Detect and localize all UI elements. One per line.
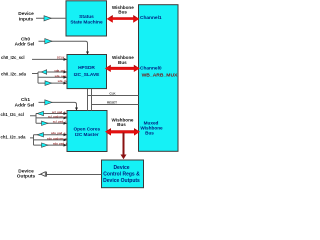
svg-text:ch0_I2c_scl: ch0_I2c_scl: [1, 55, 25, 60]
wire ch1 addr sel: [39, 102, 77, 110]
svg-text:Device: Device: [18, 11, 34, 17]
svg-text:RESET: RESET: [107, 101, 117, 105]
svg-text:sda_padoen_o: sda_padoen_o: [47, 136, 67, 140]
svg-text:sda_in: sda_in: [58, 79, 67, 83]
arrowhead ch0 sda oen: [64, 76, 68, 79]
arrowhead ch0 sda out: [64, 71, 68, 74]
buffer ch0 sda in: [45, 81, 52, 86]
buffer ch0 addr sel: [45, 39, 52, 44]
arrowhead wishbone vertical: [121, 155, 127, 160]
arrowhead ch0 scl: [64, 58, 68, 61]
arrowhead ch1 scl oen: [64, 116, 68, 119]
svg-text:Status: Status: [79, 14, 94, 20]
svg-text:sda_pad_o: sda_pad_o: [51, 131, 66, 135]
buffer device outputs (tristate): [41, 172, 46, 177]
svg-text:ch1_I2c_scl: ch1_I2c_scl: [1, 112, 25, 117]
svg-text:scl_pad_o: scl_pad_o: [52, 110, 66, 114]
wire device inputs: [36, 17, 66, 19]
svg-text:Channel1: Channel1: [140, 15, 162, 21]
buffer ch1 sda out: [37, 133, 43, 137]
svg-text:Addr Sel: Addr Sel: [15, 41, 35, 47]
svg-text:CLK: CLK: [109, 92, 116, 96]
arrowhead ch1 scl out: [64, 112, 68, 115]
wire ch0 sda fork: [32, 72, 67, 83]
svg-text:sda_out: sda_out: [54, 68, 65, 72]
svg-text:Outputs: Outputs: [17, 174, 36, 180]
arrowhead ch1 sda out: [64, 133, 68, 136]
svg-text:ch1_I2c_sda: ch1_I2c_sda: [1, 134, 27, 139]
block HPSDR I2C_SLAVE: [67, 55, 107, 89]
svg-text:Open Cores: Open Cores: [74, 127, 101, 132]
wishbone arrow mid: [105, 65, 140, 72]
wishbone bus label lower: [112, 118, 134, 127]
wire reset from slave to master: [92, 89, 139, 111]
arrowhead ch1 sda in: [64, 144, 68, 147]
buffer ch1 scl in: [42, 121, 49, 125]
svg-text:SCLK: SCLK: [57, 55, 65, 59]
buffer ch1 sda in: [42, 143, 49, 147]
svg-text:I2C Master: I2C Master: [75, 132, 99, 137]
buffer ch0 sda out: [41, 70, 46, 75]
buffer ch1 addr sel: [45, 100, 52, 105]
svg-text:I2C_SLAVE: I2C_SLAVE: [74, 72, 101, 78]
svg-text:Bus: Bus: [117, 122, 126, 127]
wishbone arrow vertical to device regs: [123, 133, 125, 155]
wire ch0 addr sel: [39, 41, 88, 54]
wishbone arrow lower: [105, 128, 140, 136]
svg-text:ch0_I2c_sda: ch0_I2c_sda: [1, 71, 27, 76]
wishbone bus label mid: [112, 55, 134, 65]
svg-text:Device: Device: [113, 165, 129, 171]
block WB_ARB_MUX channel mux: [139, 5, 179, 152]
svg-text:WB_ARB_MUX: WB_ARB_MUX: [142, 72, 179, 78]
svg-text:State Machine: State Machine: [70, 19, 103, 25]
svg-text:Bus: Bus: [145, 130, 154, 135]
wire clk from slave to master: [88, 89, 139, 111]
svg-text:Inputs: Inputs: [19, 16, 34, 22]
svg-text:scl_pad_i: scl_pad_i: [53, 120, 66, 124]
svg-text:scl_padoen_o: scl_padoen_o: [48, 114, 67, 118]
buffer bar device outputs: [45, 172, 47, 177]
svg-text:Device Outputs: Device Outputs: [103, 178, 140, 184]
label Device Outputs: [17, 168, 36, 179]
svg-text:Addr Sel: Addr Sel: [15, 102, 35, 108]
block Open Cores I2C Master: [67, 111, 107, 152]
label Ch0 Addr Sel: [15, 36, 35, 47]
svg-text:Ch1: Ch1: [21, 97, 30, 103]
svg-text:Bus: Bus: [118, 60, 127, 65]
svg-text:Control Regs &: Control Regs &: [103, 172, 140, 178]
svg-text:sda_pad_i: sda_pad_i: [53, 141, 67, 145]
svg-text:Bus: Bus: [118, 10, 127, 15]
label Ch1 Addr Sel: [15, 97, 35, 108]
block Status State Machine: [66, 1, 107, 36]
arrowhead ch0 addr sel: [86, 52, 89, 55]
buffer device inputs: [44, 16, 51, 21]
svg-text:sda_oen: sda_oen: [55, 74, 67, 78]
wire ch1 sda fork: [30, 135, 67, 145]
wishbone arrow top: [107, 15, 140, 23]
wishbone bus label top: [112, 5, 134, 15]
wire ch1 scl fork: [30, 114, 67, 124]
block Device Control Regs & Device Outputs: [102, 160, 144, 188]
wire ch0 scl: [32, 58, 67, 60]
wire device outputs: [39, 174, 102, 176]
label Device Inputs: [18, 11, 34, 22]
svg-text:Device: Device: [18, 168, 34, 174]
arrowhead ch1 sda oen: [64, 138, 68, 141]
svg-text:Channel0: Channel0: [140, 66, 162, 72]
arrowhead ch0 sda in: [64, 82, 68, 85]
svg-text:HPSDR: HPSDR: [78, 65, 95, 71]
arrowhead ch1 scl in: [64, 122, 68, 125]
buffer ch1 scl out: [37, 111, 43, 115]
arrowhead ch1 addr sel: [75, 108, 78, 111]
